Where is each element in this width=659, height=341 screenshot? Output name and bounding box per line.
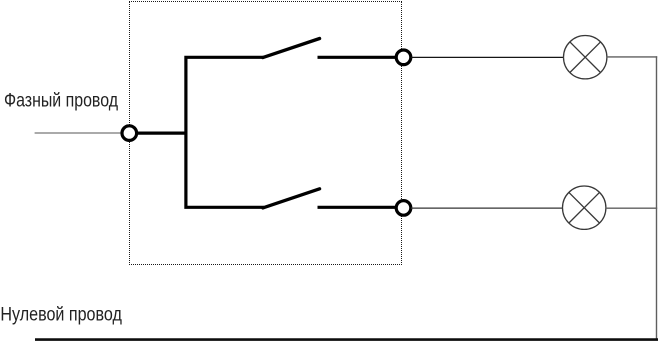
- wire: lamp HL2 to right rail: [606, 207, 657, 209]
- node: phase input terminal (open circle): [122, 126, 137, 141]
- wire: SW1 fixed contact to output node: [318, 56, 398, 59]
- switch SW1 blade (top, open): [263, 39, 320, 58]
- svg-text:Нулевой провод: Нулевой провод: [0, 304, 122, 326]
- wire: vertical split bus with top and bottom branches: [186, 57, 264, 207]
- wire: phase lead (thin gray, left edge to input node): [35, 132, 121, 134]
- wire: thick feed from input node to split point: [137, 132, 188, 135]
- wire: neutral conductor (bottom thick line): [35, 338, 658, 341]
- node: SW2 output terminal (open circle): [396, 201, 411, 216]
- wire: lamp HL1 to right rail: [607, 56, 657, 58]
- svg-text:Фазный провод: Фазный провод: [4, 89, 119, 111]
- lamp HL1 (circle with X): [564, 36, 607, 79]
- switch SW2 blade (bottom, open): [263, 189, 320, 208]
- lamp HL2 (circle with X): [563, 186, 606, 229]
- wire: right vertical rail down to neutral: [656, 56, 658, 340]
- wire: SW2 fixed contact to output node: [318, 206, 398, 209]
- wire: node to lamp HL1: [411, 56, 564, 58]
- wire: node to lamp HL2: [411, 207, 563, 209]
- switch box (dotted enclosure): [129, 2, 403, 265]
- node: SW1 output terminal (open circle): [396, 50, 411, 65]
